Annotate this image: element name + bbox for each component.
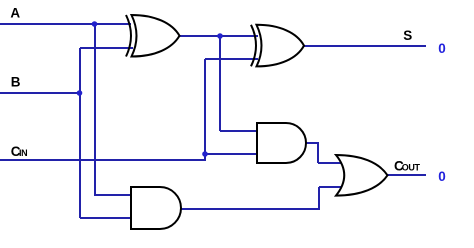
junction dot B — [77, 90, 83, 96]
wire B to XOR1 lower input — [80, 47, 133, 49]
wire CIN to AND2 lower input — [205, 153, 258, 155]
wire AND2 output horizontal — [305, 142, 318, 144]
junction dot A — [92, 21, 98, 27]
xor gate U2 extra input arc — [251, 25, 256, 67]
wire CIN vertical up to XOR2 — [204, 59, 206, 154]
svg-text:0: 0 — [438, 169, 446, 184]
wire input CIN horizontal — [0, 159, 205, 161]
wire OR output to COUT — [385, 174, 426, 176]
svg-text:B: B — [11, 74, 21, 89]
wire AND1 output horizontal — [180, 208, 319, 210]
wire to OR upper input — [318, 162, 341, 164]
wire to OR lower input — [319, 186, 341, 188]
wire input A horizontal — [0, 23, 131, 25]
and gate U4 (bottom) — [131, 187, 181, 229]
or gate U5 — [336, 155, 388, 196]
wire A vertical drop to AND1 — [94, 23, 96, 195]
wire CIN jog up — [204, 154, 206, 161]
svg-text:OUT: OUT — [402, 163, 421, 173]
svg-text:0: 0 — [438, 41, 446, 56]
wire XOR1 output vertical drop — [219, 35, 221, 131]
wire AND1 output vertical up — [318, 187, 320, 210]
xor gate U1 extra input arc — [126, 15, 131, 57]
wire B to AND1 lower input — [80, 217, 133, 219]
wire XOR1 output to XOR2 upper input — [178, 35, 258, 37]
wire B vertical — [79, 48, 81, 218]
wire A to AND1 upper input — [94, 194, 133, 196]
wire XOR2 output to S — [302, 45, 426, 47]
wire AND2 output vertical down — [317, 142, 319, 163]
and gate U3 (middle) — [257, 123, 306, 163]
xor gate U1 body — [132, 15, 180, 57]
junction dot XOR1 output — [217, 33, 223, 39]
wire input B horizontal — [0, 92, 80, 94]
junction dot CIN — [202, 151, 208, 157]
svg-text:IN: IN — [19, 148, 27, 158]
xor gate U2 body — [257, 25, 305, 67]
wire to AND2 upper input — [220, 130, 258, 132]
wire CIN to XOR2 lower input — [205, 58, 258, 60]
svg-text:S: S — [403, 28, 412, 43]
svg-text:A: A — [10, 5, 20, 20]
